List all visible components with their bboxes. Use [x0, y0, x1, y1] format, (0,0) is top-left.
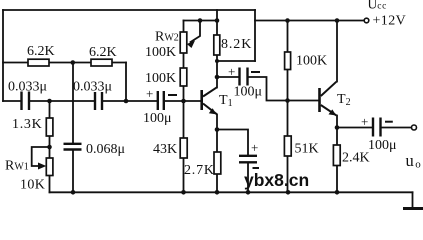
svg-text:100K: 100K	[296, 54, 327, 69]
svg-text:8.2K: 8.2K	[221, 37, 252, 52]
svg-text:10K: 10K	[20, 178, 45, 193]
svg-text:0.033μ: 0.033μ	[73, 80, 112, 95]
svg-text:+: +	[251, 140, 258, 155]
svg-text:1.3K: 1.3K	[12, 117, 42, 132]
svg-text:100μ: 100μ	[143, 111, 172, 126]
svg-text:RW1: RW1	[5, 159, 29, 174]
svg-text:ybx8.cn: ybx8.cn	[244, 170, 309, 190]
svg-text:6.2K: 6.2K	[89, 45, 117, 60]
svg-text:100μ: 100μ	[234, 85, 263, 100]
svg-text:+12V: +12V	[373, 14, 407, 29]
svg-text:100μ: 100μ	[368, 138, 397, 153]
svg-text:0.068μ: 0.068μ	[86, 142, 125, 157]
svg-text:6.2K: 6.2K	[27, 44, 55, 59]
svg-text:Ucc: Ucc	[368, 0, 387, 12]
svg-text:43K: 43K	[153, 142, 177, 157]
svg-text:+: +	[146, 86, 153, 101]
svg-text:51K: 51K	[295, 142, 319, 157]
svg-text:+: +	[361, 114, 368, 129]
svg-text:100K: 100K	[145, 71, 176, 86]
svg-text:RW2: RW2	[155, 30, 179, 45]
svg-text:100K: 100K	[145, 45, 176, 60]
svg-text:2.4K: 2.4K	[342, 151, 370, 166]
svg-text:+: +	[228, 64, 235, 79]
svg-text:0.033μ: 0.033μ	[8, 80, 47, 95]
svg-text:2.7K: 2.7K	[184, 163, 215, 178]
